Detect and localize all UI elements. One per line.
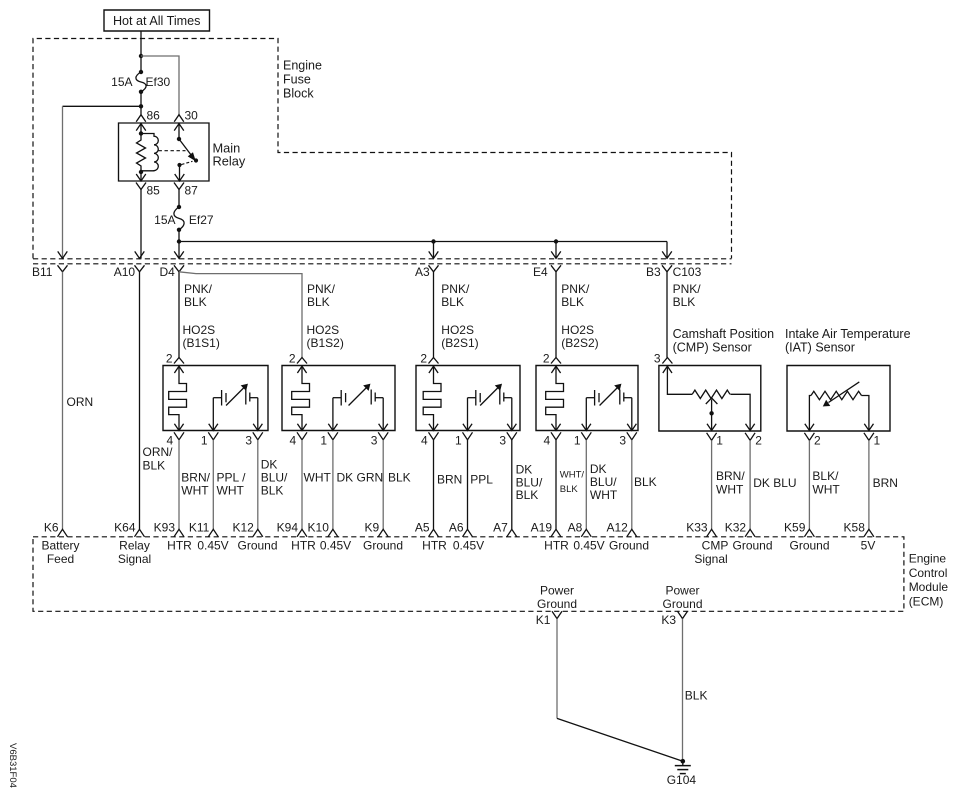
node: coil top xyxy=(139,131,143,135)
relay switch common from pin 30 xyxy=(178,124,180,139)
ECM terminal A5 xyxy=(429,529,439,537)
HO2S B1S2 pin 1 socket xyxy=(328,432,338,440)
svg-text:Ground: Ground xyxy=(732,539,772,553)
ECM terminal K93 xyxy=(174,529,184,537)
node: junction Ef27 / PNK-BLK bus xyxy=(177,239,181,243)
svg-text:BLK: BLK xyxy=(388,471,411,485)
svg-text:4: 4 xyxy=(544,433,551,447)
CMP wiper lead xyxy=(711,400,713,431)
relay pin 86 connector chevrons xyxy=(136,115,146,122)
svg-text:HTR: HTR xyxy=(544,539,569,553)
svg-text:K64: K64 xyxy=(114,521,136,535)
svg-text:3: 3 xyxy=(619,433,626,447)
svg-text:(B1S1): (B1S1) xyxy=(183,336,220,350)
svg-text:Fuse: Fuse xyxy=(283,72,311,86)
wire: B2S1 pin 1 to ECM xyxy=(467,440,469,530)
wire: B2S1 pin 4 to ECM xyxy=(433,440,435,530)
svg-text:DK: DK xyxy=(261,458,278,472)
HO2S B1S1 pin 1 socket xyxy=(208,432,218,440)
svg-text:PNK/: PNK/ xyxy=(184,282,213,296)
svg-text:BLK: BLK xyxy=(685,689,708,703)
ECM terminal K1 xyxy=(552,611,562,618)
HO2S B1S2 pin 3 lead xyxy=(382,398,384,431)
svg-text:BLK: BLK xyxy=(307,295,330,309)
wire: B1S1 pin 4 to ECM xyxy=(178,440,180,530)
wire: battery feed from Hot at All Times to fuse Ef30 xyxy=(140,31,142,72)
svg-text:Engine: Engine xyxy=(909,552,947,566)
HO2S B1S2 pin 2 socket xyxy=(297,358,307,364)
svg-text:Ef27: Ef27 xyxy=(189,213,214,227)
connector D4 socket xyxy=(174,265,184,272)
HO2S B2S1 pin 1 socket xyxy=(463,432,473,440)
wire BRN: IAT pin 1 to ECM K58 xyxy=(868,440,870,529)
svg-text:Ground: Ground xyxy=(789,539,829,553)
svg-text:(B2S1): (B2S1) xyxy=(441,336,478,350)
IAT sensor box xyxy=(787,366,890,432)
relay coil winding xyxy=(141,134,158,171)
svg-text:BLK/: BLK/ xyxy=(812,469,839,483)
HO2S B1S2 pin 1 lead xyxy=(332,398,334,431)
svg-text:BLK: BLK xyxy=(184,295,207,309)
wire DK BLU: CMP pin 2 to ECM K32 xyxy=(749,440,751,529)
ECM terminal A6 xyxy=(463,529,473,537)
connector D4 arrow xyxy=(174,251,184,258)
svg-text:K12: K12 xyxy=(232,521,254,535)
node: junction B11 branch xyxy=(139,104,143,108)
svg-text:BLK: BLK xyxy=(261,484,284,498)
relay pin 87 exit arrow xyxy=(179,165,181,181)
wire: K1 ground splice diagonal xyxy=(557,718,683,761)
HO2S B2S1 pin 2 socket xyxy=(429,358,439,364)
HO2S B1S1 box xyxy=(163,366,268,431)
relay pin 85 funnel xyxy=(136,183,146,190)
ECM terminal K64 xyxy=(135,529,145,537)
svg-text:WHT: WHT xyxy=(304,471,332,485)
svg-text:HTR: HTR xyxy=(422,539,447,553)
HO2S B1S2 sensing cell xyxy=(333,397,341,399)
HO2S B2S1 heater element xyxy=(429,366,438,373)
HO2S B2S2 sensing cell xyxy=(586,397,594,399)
svg-text:K10: K10 xyxy=(308,521,330,535)
HO2S B1S2 box xyxy=(282,366,395,431)
svg-text:K94: K94 xyxy=(277,521,299,535)
CMP sensor box xyxy=(659,366,761,432)
svg-text:1: 1 xyxy=(455,433,462,447)
wire: bus drop to E4 xyxy=(555,242,557,259)
IAT pin 2 socket xyxy=(804,433,814,441)
ECM (Engine Control Module) dashed box xyxy=(33,537,904,612)
svg-text:1: 1 xyxy=(716,433,723,447)
svg-text:BRN/: BRN/ xyxy=(716,469,745,483)
wire: fuse Ef27 to connector D4 xyxy=(178,230,180,259)
HO2S B2S2 pin 3 socket xyxy=(627,432,637,440)
svg-text:4: 4 xyxy=(421,433,428,447)
HO2S B1S1 pin 4 socket xyxy=(174,432,184,440)
svg-text:HTR: HTR xyxy=(291,539,316,553)
wire: B1S1 pin 1 to ECM xyxy=(212,440,214,530)
ECM terminal K9 xyxy=(378,529,388,537)
relay coil resistor (zigzag) xyxy=(137,134,146,173)
ECM terminal K94 xyxy=(297,529,307,537)
wire: fuse Ef30 to relay pin 86 xyxy=(140,92,142,115)
svg-text:Hot at All Times: Hot at All Times xyxy=(113,14,201,28)
svg-text:WHT/: WHT/ xyxy=(560,470,585,481)
connector B3 arrow xyxy=(662,251,672,258)
svg-text:(B2S2): (B2S2) xyxy=(561,336,598,350)
CMP right lead xyxy=(730,394,750,430)
HO2S B1S1 heater element xyxy=(174,366,183,373)
wire: B1S2 pin 4 to ECM xyxy=(301,440,303,530)
IAT right lead xyxy=(862,396,869,431)
CMP potentiometer (zigzag) xyxy=(692,390,730,398)
svg-text:1: 1 xyxy=(874,433,881,447)
svg-text:WHT: WHT xyxy=(217,484,245,498)
svg-text:85: 85 xyxy=(147,183,161,197)
HO2S B2S1 pin 1 lead xyxy=(467,398,469,431)
svg-text:Intake Air Temperature: Intake Air Temperature xyxy=(785,327,911,341)
svg-text:Ground: Ground xyxy=(363,539,403,553)
svg-text:DK: DK xyxy=(516,463,533,477)
wire: relay pin 85 to connector A10 xyxy=(140,190,142,259)
svg-text:HO2S: HO2S xyxy=(561,323,594,337)
node: switch pivot xyxy=(177,137,181,141)
svg-text:K33: K33 xyxy=(686,521,708,535)
svg-text:Relay: Relay xyxy=(119,539,150,553)
svg-text:A3: A3 xyxy=(415,265,430,279)
svg-text:Signal: Signal xyxy=(118,552,151,566)
connector A3 arrow xyxy=(429,251,439,258)
HO2S B1S1 pin 3 lead xyxy=(257,398,259,431)
connector E4 arrow xyxy=(551,251,561,258)
HO2S B1S1 sensing cell xyxy=(213,397,221,399)
wire: K1 to ground splice (vertical) xyxy=(556,619,558,719)
relay mechanical link (dashed) xyxy=(159,150,186,152)
IAT thermistor arrow xyxy=(829,382,860,403)
HO2S B2S2 pin 1 lead xyxy=(585,398,587,431)
relay switch arm xyxy=(179,139,192,156)
svg-text:D4: D4 xyxy=(160,265,176,279)
HO2S B1S1 pin 3 socket xyxy=(253,432,263,440)
svg-text:HO2S: HO2S xyxy=(183,323,216,337)
node: junction bus to A3 xyxy=(431,239,435,243)
svg-text:WHT: WHT xyxy=(812,482,840,496)
ECM terminal K12 xyxy=(253,529,263,537)
svg-text:2: 2 xyxy=(755,433,762,447)
HO2S B2S2 pin 3 lead xyxy=(631,398,633,431)
ECM terminal K59 xyxy=(804,529,814,537)
svg-text:C103: C103 xyxy=(673,265,702,279)
connector B11 arrow xyxy=(58,251,68,258)
IAT left lead xyxy=(809,396,811,431)
ground G104 symbol xyxy=(675,765,691,767)
wire BLK/WHT: IAT pin 2 to ECM K59 xyxy=(808,440,810,529)
svg-text:A5: A5 xyxy=(415,521,430,535)
wire ORN/BLK: A10 to ECM K64 xyxy=(139,272,141,530)
connector row dashed line lower xyxy=(33,263,732,265)
svg-text:Engine: Engine xyxy=(283,58,322,72)
connector row dashed line upper xyxy=(33,258,732,260)
svg-text:0.45V: 0.45V xyxy=(320,539,351,553)
svg-text:V6B31F04: V6B31F04 xyxy=(7,743,18,788)
HO2S B2S2 heater element xyxy=(551,366,560,373)
svg-text:DK BLU: DK BLU xyxy=(753,476,796,490)
relay Main Relay box xyxy=(119,123,210,181)
wire: ground stub xyxy=(682,761,684,765)
svg-text:HO2S: HO2S xyxy=(441,323,474,337)
svg-text:K58: K58 xyxy=(844,521,866,535)
svg-text:4: 4 xyxy=(290,433,297,447)
connector B11 socket xyxy=(58,265,68,272)
svg-text:15A: 15A xyxy=(111,75,132,89)
node: coil bottom xyxy=(139,170,143,174)
svg-text:WHT: WHT xyxy=(590,488,618,502)
svg-text:(B1S2): (B1S2) xyxy=(307,336,344,350)
connector A10 socket xyxy=(135,265,145,272)
node: switch arm tip xyxy=(194,158,198,162)
HO2S B1S2 pin 4 socket xyxy=(297,432,307,440)
svg-text:BRN/: BRN/ xyxy=(181,471,210,485)
svg-text:BLK: BLK xyxy=(561,295,584,309)
wire: B1S1 pin 3 to ECM xyxy=(257,440,259,530)
wire PNK/BLK: D4 to HO2S B1S1 pin 2 xyxy=(178,272,180,358)
svg-text:Relay: Relay xyxy=(213,154,246,169)
svg-text:K32: K32 xyxy=(725,521,747,535)
svg-text:Camshaft Position: Camshaft Position xyxy=(673,327,774,341)
relay coil feed wire xyxy=(140,124,142,134)
svg-text:DK GRN: DK GRN xyxy=(337,471,384,485)
wire BLK: K3 to ground G104 xyxy=(682,619,684,762)
wire BRN/WHT: CMP pin 1 to ECM K33 xyxy=(711,440,713,529)
svg-text:1: 1 xyxy=(201,433,208,447)
svg-text:BLK: BLK xyxy=(143,458,166,472)
svg-text:BLK: BLK xyxy=(673,295,696,309)
IAT thermistor (zigzag) xyxy=(811,391,861,399)
CMP pin 2 socket xyxy=(745,433,755,441)
svg-text:A19: A19 xyxy=(531,521,553,535)
svg-text:(ECM): (ECM) xyxy=(909,594,944,608)
svg-text:Power: Power xyxy=(665,584,699,598)
connector A3 socket xyxy=(429,265,439,272)
ECM terminal K10 xyxy=(328,529,338,537)
svg-text:30: 30 xyxy=(185,109,199,123)
svg-text:B11: B11 xyxy=(32,265,53,279)
HO2S B1S1 pin 1 lead xyxy=(212,398,214,431)
relay pin 85 exit arrow xyxy=(140,172,142,181)
svg-text:PPL: PPL xyxy=(470,473,493,487)
svg-text:PNK/: PNK/ xyxy=(673,282,702,296)
ECM terminal A8 xyxy=(581,529,591,537)
wire: relay pin 87 to fuse Ef27 xyxy=(178,190,180,208)
svg-text:15A: 15A xyxy=(154,213,175,227)
node: junction bus to E4 xyxy=(554,239,558,243)
HO2S B2S1 pin 4 socket xyxy=(429,432,439,440)
svg-text:(IAT) Sensor: (IAT) Sensor xyxy=(785,341,855,355)
ECM terminal K11 xyxy=(208,529,218,537)
HO2S B2S2 pin 2 socket xyxy=(551,358,561,364)
HO2S B2S2 box xyxy=(536,366,638,431)
HO2S B2S1 box xyxy=(416,366,520,431)
svg-text:HTR: HTR xyxy=(167,539,192,553)
svg-text:86: 86 xyxy=(147,109,161,123)
svg-text:PNK/: PNK/ xyxy=(561,282,590,296)
HO2S B1S1 pin 2 socket xyxy=(174,358,184,364)
HO2S B2S1 pin 3 socket xyxy=(507,432,517,440)
wire: B2S1 pin 3 to ECM xyxy=(511,440,513,530)
svg-text:Signal: Signal xyxy=(694,552,727,566)
svg-text:4: 4 xyxy=(167,433,174,447)
svg-text:DK: DK xyxy=(590,462,607,476)
ECM terminal K3 xyxy=(678,611,688,618)
svg-text:Ground: Ground xyxy=(537,597,577,611)
svg-text:K1: K1 xyxy=(536,613,551,627)
svg-text:2: 2 xyxy=(289,352,296,366)
connector A10 arrow xyxy=(135,251,145,258)
svg-text:Ground: Ground xyxy=(609,539,649,553)
wire: PNK/BLK bus to B3 xyxy=(179,241,667,243)
CMP internal lead from pin 3 xyxy=(663,366,672,373)
CMP pin 1 socket xyxy=(707,433,717,441)
svg-text:Power: Power xyxy=(540,584,574,598)
svg-text:3: 3 xyxy=(245,433,252,447)
wire: bus drop to B3 xyxy=(666,242,668,259)
svg-text:WHT: WHT xyxy=(716,482,744,496)
svg-text:HO2S: HO2S xyxy=(307,323,340,337)
svg-text:K11: K11 xyxy=(189,521,210,535)
svg-text:2: 2 xyxy=(814,433,821,447)
wire: B1S2 pin 3 to ECM xyxy=(382,440,384,530)
relay pin 30 connector chevrons xyxy=(174,115,184,122)
svg-text:BLU/: BLU/ xyxy=(261,471,288,485)
node: ground splice xyxy=(681,759,686,764)
svg-text:A7: A7 xyxy=(493,521,508,535)
Engine Fuse Block dashed outline xyxy=(33,39,732,259)
wire PNK/BLK: A3 to HO2S B2S1 pin 2 xyxy=(433,272,435,358)
svg-text:BLK: BLK xyxy=(634,475,657,489)
fuse Ef30 15A xyxy=(136,72,146,92)
svg-text:0.45V: 0.45V xyxy=(573,539,604,553)
svg-text:3: 3 xyxy=(499,433,506,447)
svg-text:PNK/: PNK/ xyxy=(441,282,470,296)
wire: B2S2 pin 1 to ECM xyxy=(585,440,587,530)
svg-text:A12: A12 xyxy=(606,521,628,535)
svg-text:Ground: Ground xyxy=(237,539,277,553)
svg-text:Block: Block xyxy=(283,86,314,100)
svg-text:K59: K59 xyxy=(784,521,806,535)
svg-text:A10: A10 xyxy=(114,265,136,279)
HO2S B2S2 pin 4 socket xyxy=(551,432,561,440)
svg-text:BRN: BRN xyxy=(873,476,898,490)
ECM terminal K58 xyxy=(864,529,874,537)
HO2S B1S2 pin 3 socket xyxy=(378,432,388,440)
ECM terminal K32 xyxy=(745,529,755,537)
ECM terminal A7 xyxy=(507,529,517,537)
svg-text:K6: K6 xyxy=(44,521,59,535)
CMP wiper arrow xyxy=(706,398,718,404)
svg-text:PPL /: PPL / xyxy=(217,471,247,485)
svg-text:1: 1 xyxy=(574,433,581,447)
svg-text:5V: 5V xyxy=(861,539,876,553)
svg-text:A8: A8 xyxy=(568,521,583,535)
ECM terminal K33 xyxy=(707,529,717,537)
svg-text:0.45V: 0.45V xyxy=(453,539,484,553)
svg-text:3: 3 xyxy=(654,352,661,366)
svg-text:Ground: Ground xyxy=(662,597,702,611)
node: contact 87 xyxy=(177,163,181,167)
svg-text:2: 2 xyxy=(166,352,173,366)
wire: feed to relay pin 30 xyxy=(141,56,179,115)
HO2S B2S1 sensing cell xyxy=(468,397,476,399)
CMP pin 3 socket xyxy=(662,358,672,364)
wire: branch to connector B11 (horizontal) xyxy=(63,105,142,107)
svg-text:0.45V: 0.45V xyxy=(197,539,228,553)
svg-text:2: 2 xyxy=(420,352,427,366)
svg-text:3: 3 xyxy=(371,433,378,447)
svg-text:BLK: BLK xyxy=(560,484,579,495)
svg-text:E4: E4 xyxy=(533,265,548,279)
wire PNK/BLK: E4 to HO2S B2S2 pin 2 xyxy=(555,272,557,358)
wire: bus drop to A3 xyxy=(433,242,435,259)
svg-text:A6: A6 xyxy=(449,521,464,535)
svg-text:Feed: Feed xyxy=(47,552,74,566)
wire PNK/BLK: C103 to CMP pin 3 xyxy=(666,272,668,358)
relay fixed contact 87 (dashed) xyxy=(182,161,193,164)
ECM terminal K6 xyxy=(58,529,68,537)
svg-text:K3: K3 xyxy=(661,613,676,627)
HO2S B2S1 pin 3 lead xyxy=(511,398,513,431)
fuse Ef27 15A xyxy=(174,207,184,230)
wire ORN: B11 to ECM K6 xyxy=(62,272,64,530)
HO2S B2S2 pin 1 socket xyxy=(581,432,591,440)
HO2S B1S2 heater element xyxy=(297,366,306,373)
svg-text:PNK/: PNK/ xyxy=(307,282,336,296)
IAT pin 1 socket xyxy=(864,433,874,441)
svg-text:ORN: ORN xyxy=(67,395,94,409)
wire: branch to connector B11 (vertical) xyxy=(62,106,64,258)
svg-text:BRN: BRN xyxy=(437,473,462,487)
svg-text:CMP: CMP xyxy=(702,539,729,553)
svg-text:Control: Control xyxy=(909,566,948,580)
svg-text:Ef30: Ef30 xyxy=(146,75,171,89)
svg-text:Module: Module xyxy=(909,580,949,594)
svg-text:87: 87 xyxy=(185,183,199,197)
connector E4 socket xyxy=(551,265,561,272)
ECM terminal A19 xyxy=(551,529,561,537)
svg-text:(CMP) Sensor: (CMP) Sensor xyxy=(673,341,752,355)
svg-text:Battery: Battery xyxy=(41,539,79,553)
wire: B2S2 pin 4 to ECM xyxy=(555,440,557,530)
svg-text:B3: B3 xyxy=(646,265,661,279)
ECM terminal A12 xyxy=(627,529,637,537)
node: CMP wiper junction dot xyxy=(709,411,713,415)
svg-text:WHT: WHT xyxy=(181,484,209,498)
svg-text:G104: G104 xyxy=(667,773,697,787)
svg-text:2: 2 xyxy=(543,352,550,366)
wire PNK/BLK: D4 branch to HO2S B1S2 pin 2 xyxy=(179,272,302,358)
svg-text:1: 1 xyxy=(320,433,327,447)
svg-text:K9: K9 xyxy=(365,521,380,535)
svg-text:K93: K93 xyxy=(154,521,176,535)
connector B3 socket xyxy=(662,265,672,272)
wire: B2S2 pin 3 to ECM xyxy=(631,440,633,530)
power source label: Hot at All Times xyxy=(104,10,210,31)
svg-text:BLK: BLK xyxy=(516,488,539,502)
svg-text:BLK: BLK xyxy=(441,295,464,309)
relay pin 87 funnel xyxy=(174,183,184,190)
wire: B1S2 pin 1 to ECM xyxy=(332,440,334,530)
node: junction battery feed / relay pin 30 feed xyxy=(139,54,143,58)
